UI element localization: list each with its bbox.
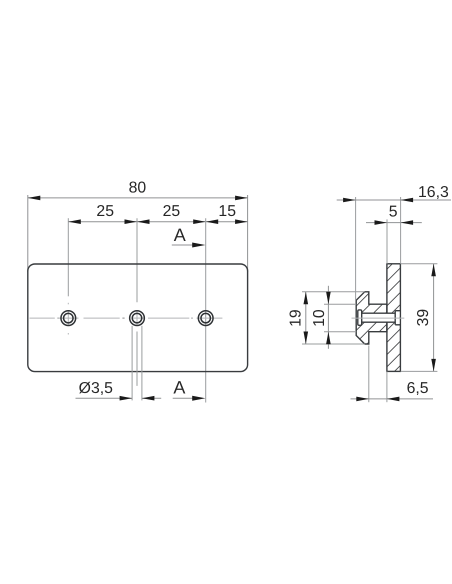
svg-text:39: 39: [415, 309, 432, 327]
plate section outline: [387, 264, 401, 372]
extension line hole2 (up to 25 dim): [136, 218, 138, 302]
extension line plate left (5): [386, 219, 388, 263]
dimension line 25-25-15: [68, 221, 247, 223]
centreline hole1 vertical: [67, 303, 69, 305]
section line A-A through hole 3: [205, 218, 207, 402]
dimension line 80: [28, 197, 248, 199]
svg-text:5: 5: [389, 203, 398, 220]
dimension line 5: [366, 222, 422, 224]
screw head / nut (left): [358, 310, 362, 325]
dimension line 16,3: [337, 199, 451, 201]
arrowhead 25 left: [68, 219, 81, 224]
extension lines 39: [401, 263, 438, 265]
svg-text:A: A: [173, 377, 185, 397]
hatching of button section: [340, 250, 400, 395]
extension line flange right (6,5): [368, 346, 370, 403]
centreline dot before hole 2: [122, 317, 124, 319]
dimension line 39: [433, 264, 435, 372]
section arrow bottom A: [192, 396, 205, 401]
dimension line 6,5: [351, 398, 434, 400]
plate front view outline: [28, 264, 248, 372]
svg-text:15: 15: [218, 203, 236, 220]
section arrow bottom tail line: [173, 397, 194, 399]
hole 2 projection lines down: [131, 326, 133, 401]
svg-text:25: 25: [163, 203, 181, 220]
extension lines 19: [302, 291, 365, 293]
arrowheads at hole3: [193, 219, 206, 224]
svg-text:Ø3,5: Ø3,5: [79, 380, 113, 397]
svg-text:16,3: 16,3: [418, 184, 449, 201]
hatching of plate section: [370, 236, 420, 396]
horizontal centreline through holes: [30, 317, 55, 319]
extension line right of 80/15 dims: [247, 195, 249, 272]
svg-text:25: 25: [96, 203, 114, 220]
hole 3: [198, 311, 213, 326]
extension line hole1 (up to 25 dim): [67, 218, 69, 296]
extension line flange left (16,3): [355, 197, 357, 300]
svg-text:6,5: 6,5: [407, 380, 429, 397]
svg-text:19: 19: [287, 309, 304, 327]
svg-text:10: 10: [311, 309, 328, 327]
arrowhead 80 left: [28, 196, 41, 201]
dimension line 19: [305, 292, 307, 344]
dimension 3,5 lines and arrows: [76, 397, 133, 399]
button (flange + neck) outline: [356, 292, 387, 344]
centreline hole2 vertical: [136, 311, 138, 326]
extension line plate left bottom (6,5): [386, 371, 388, 402]
svg-text:80: 80: [129, 179, 147, 196]
centreline horizontal right view: [352, 317, 405, 319]
arrowheads at hole2: [125, 219, 138, 224]
section arrow top A: [172, 244, 194, 246]
screw channel (white): [362, 313, 396, 322]
extension line left of 80 dim: [27, 195, 29, 272]
arrowhead 15 right: [235, 219, 248, 224]
horizontal centreline continued (hole2 to hole3): [132, 317, 144, 319]
centreline dot before hole 1: [57, 317, 59, 319]
extension lines 10: [324, 303, 356, 305]
hole 1: [61, 311, 76, 326]
hole 2: [130, 311, 145, 326]
extension line plate right (16,3 / 5): [400, 197, 402, 264]
svg-text:A: A: [174, 225, 186, 245]
arrowhead 80 right: [235, 196, 248, 201]
dimension line 10: [327, 286, 329, 349]
screw head in counterbore (right): [395, 311, 399, 325]
